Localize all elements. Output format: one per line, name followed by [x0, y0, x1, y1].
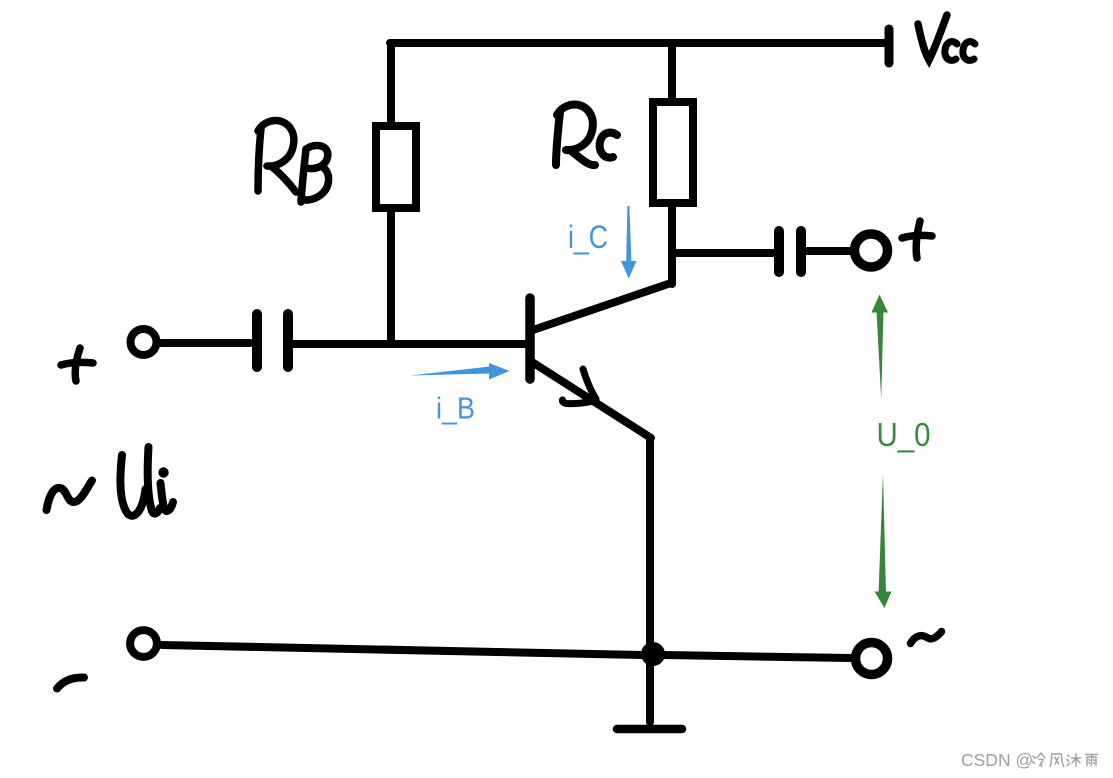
- wire bottom right: [664, 655, 850, 658]
- terminal bottom-left circle: [130, 630, 157, 657]
- label RB: [258, 120, 329, 202]
- label Rc: [556, 104, 617, 165]
- wire collector vertical: [668, 207, 676, 284]
- wire RB bottom vertical: [387, 212, 395, 343]
- resistor RB: [376, 126, 416, 208]
- ground: [617, 725, 682, 734]
- wire top rail: [390, 39, 888, 47]
- current arrow i_B: [410, 363, 510, 380]
- svg-text:i_C: i_C: [568, 219, 608, 255]
- watermark: [961, 750, 1033, 771]
- arrow U_0 up: [872, 295, 889, 400]
- capacitor C2 plates: [779, 231, 801, 272]
- transistor Q1 emitter arrow: [562, 369, 596, 404]
- capacitor C1 plates: [257, 314, 288, 367]
- label ~ input: [47, 481, 93, 511]
- wire base segment: [294, 340, 526, 348]
- svg-text:i_B: i_B: [436, 391, 475, 426]
- label + input: [61, 348, 93, 381]
- transistor Q1 collector: [533, 283, 671, 330]
- wire bottom left: [162, 645, 642, 655]
- transistor Q1 base bar: [525, 298, 535, 379]
- terminal input circle: [131, 329, 157, 355]
- label Ui: [120, 447, 173, 516]
- terminal bottom-right circle: [856, 643, 888, 675]
- junction dot: [641, 642, 665, 666]
- label Ui i-dot: [158, 467, 168, 477]
- label Vcc: [918, 15, 975, 60]
- wire Rc top vertical: [668, 43, 676, 98]
- watermark glyph mu: [1067, 754, 1081, 767]
- resistor Rc: [653, 102, 693, 203]
- watermark glyph feng: [1050, 754, 1063, 767]
- current arrow i_C: [621, 206, 637, 279]
- Vcc terminal bar: [885, 29, 894, 63]
- terminal output circle: [855, 234, 888, 267]
- wire RB top vertical: [387, 43, 395, 122]
- wire output collector tap: [674, 249, 773, 257]
- label - bottom left: [57, 677, 84, 688]
- wire input left segment: [161, 339, 250, 347]
- watermark glyph yu: [1086, 755, 1098, 766]
- svg-text:U_0: U_0: [877, 416, 931, 453]
- watermark glyph leng: [1032, 753, 1045, 767]
- wire emitter vertical: [646, 438, 654, 722]
- arrow U_0 down: [875, 474, 892, 609]
- transistor Q1 emitter: [532, 362, 651, 438]
- label + output: [902, 221, 932, 258]
- label ~ bottom right: [911, 632, 942, 644]
- wire output right segment: [806, 247, 849, 255]
